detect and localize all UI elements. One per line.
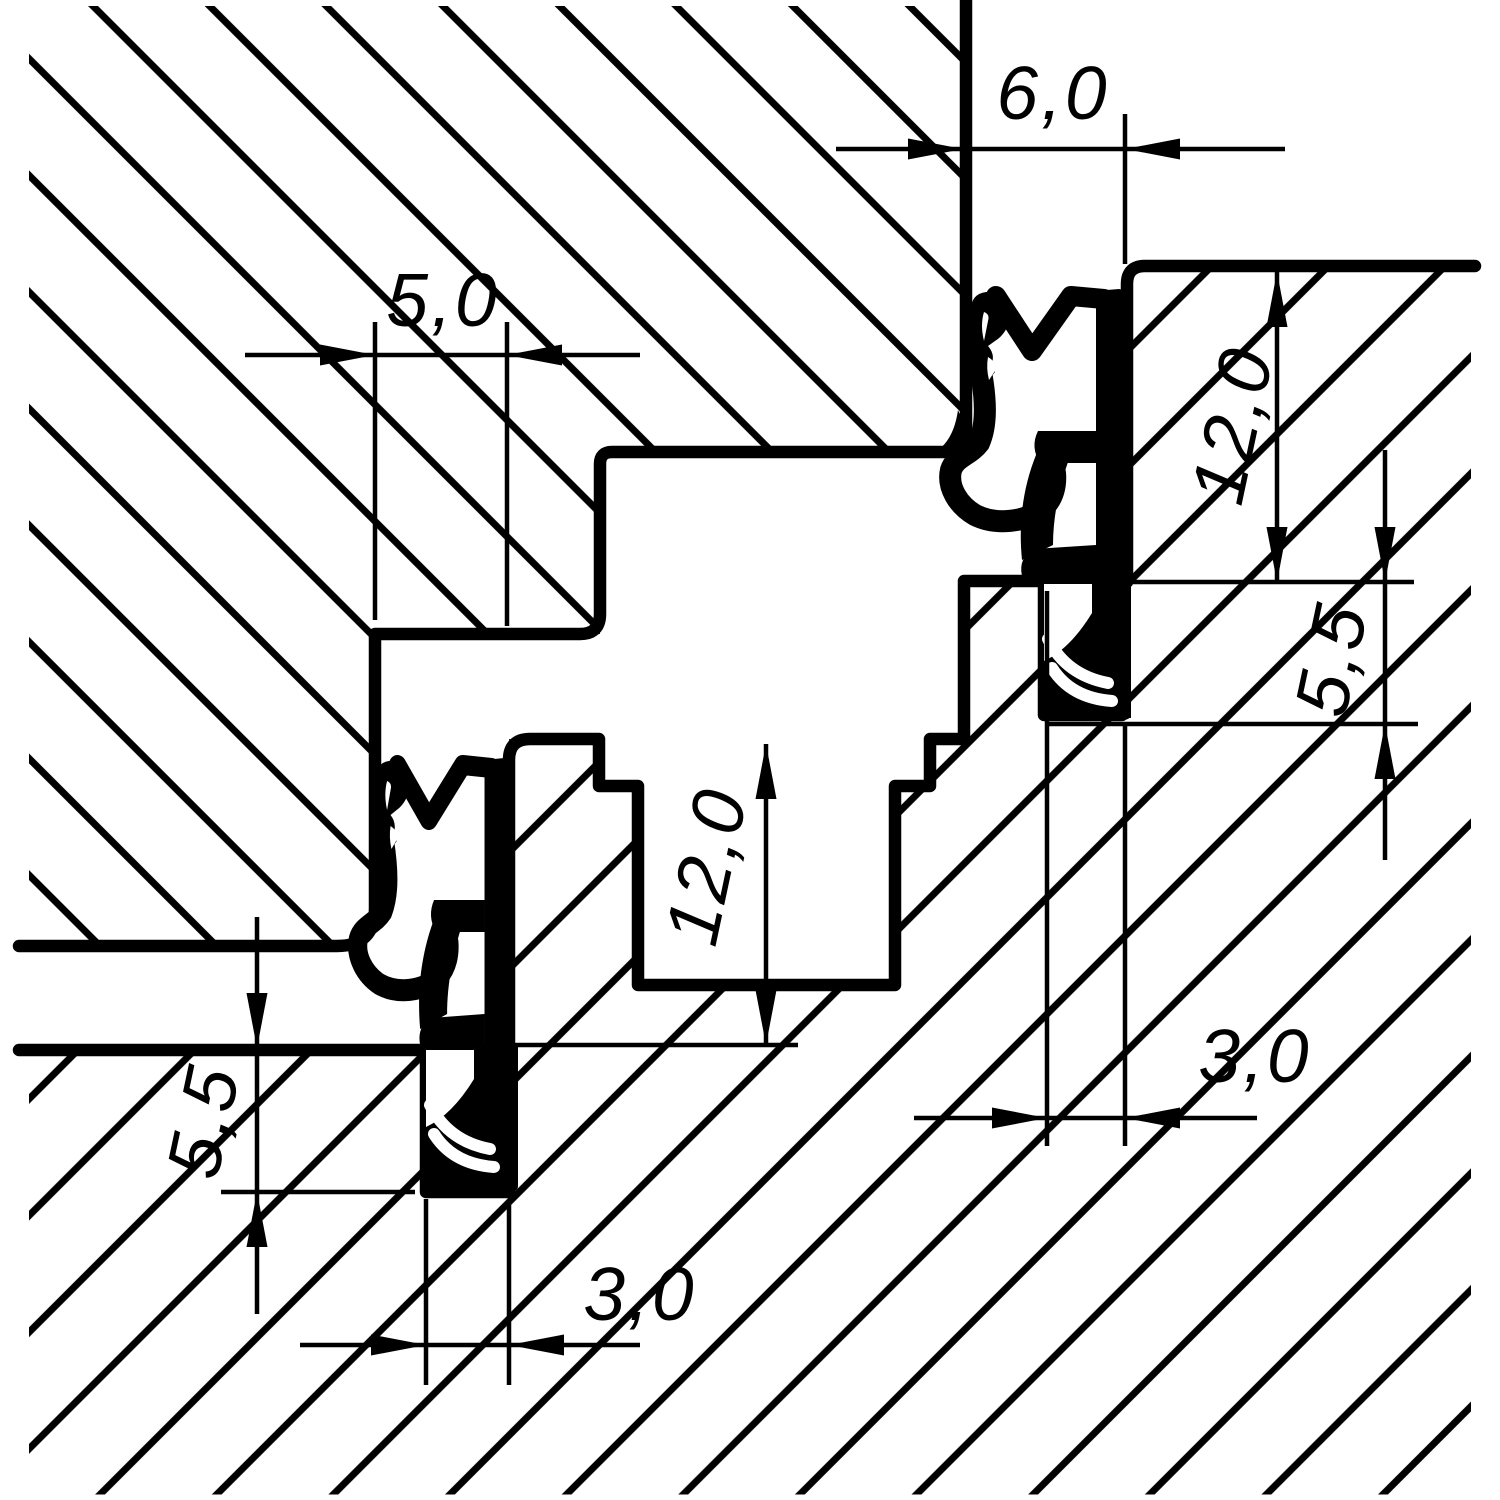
upper-left member outline: [19, 0, 966, 946]
left seal lip lobe: [376, 761, 411, 848]
right seal foot in groove: [1040, 577, 1131, 720]
svg-text:3,0: 3,0: [583, 1252, 696, 1336]
right seal lip slot (white): [982, 312, 989, 341]
right seal lip wedge (white): [987, 357, 997, 380]
fillet frame/right seal: [918, 410, 966, 458]
left seal curl: [419, 924, 460, 1029]
left seal hook finger: [358, 841, 449, 990]
dimension 5,0 upper-left: [245, 353, 640, 358]
left seal foot in groove: [422, 1043, 518, 1192]
svg-text:5,0: 5,0: [386, 258, 499, 342]
right seal spring arc gap 1 (white): [1048, 639, 1108, 683]
left seal lip slot (white): [385, 781, 391, 810]
right seal profile: [950, 289, 1131, 718]
right seal top ridge: [996, 296, 1104, 351]
left seal groove gap (white): [426, 1050, 474, 1127]
dimension 3,0 bottom-left: [300, 1343, 640, 1348]
right seal lip lobe: [971, 292, 1011, 379]
right seal stem: [1096, 289, 1131, 718]
right seal curl: [1021, 455, 1068, 560]
lower-right member outline: [19, 266, 1475, 1192]
left seal spring arc gap 2 (white): [434, 1134, 494, 1167]
left seal profile: [358, 758, 515, 1187]
left seal lip wedge (white): [390, 826, 399, 849]
left seal top ridge: [398, 765, 492, 820]
dimension 6,0 top: [836, 147, 1285, 152]
left seal flange: [419, 1014, 484, 1050]
left seal stem: [485, 758, 515, 1187]
dimension 12,0 right: [1275, 272, 1280, 582]
dimension 3,0 right: [914, 1116, 1257, 1121]
svg-text:3,0: 3,0: [1198, 1014, 1311, 1098]
right seal connector stub: [1034, 431, 1096, 463]
right seal spring arc gap 2 (white): [1052, 668, 1112, 701]
dimension 12,0 center: [764, 744, 769, 1045]
dimension 5,5 left: [255, 917, 260, 1314]
svg-text:6,0: 6,0: [996, 51, 1109, 135]
right seal hook finger: [950, 372, 1055, 521]
left seal spring arc gap 1 (white): [430, 1105, 490, 1149]
right seal groove gap (white): [1044, 584, 1092, 661]
right seal flange: [1021, 545, 1096, 581]
left seal connector stub: [431, 900, 485, 932]
dimension 5,5 right: [1383, 450, 1388, 860]
